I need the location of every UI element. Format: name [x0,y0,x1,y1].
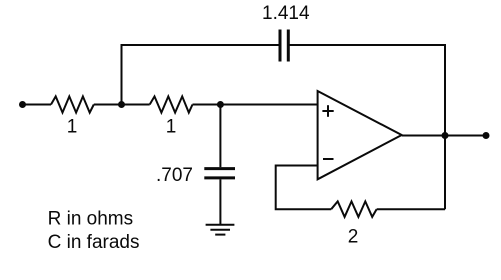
wire [122,45,281,105]
svg-text:2: 2 [348,227,359,248]
wire [94,104,150,106]
resistor R2 [150,96,193,112]
wire [288,45,445,209]
wire [402,135,486,137]
node output junction [442,132,449,139]
op-amp U1 minus input symbol [323,158,334,160]
svg-text:1: 1 [166,117,177,138]
op-amp U1 plus input symbol [322,105,333,117]
node A [118,101,125,108]
wire [276,166,332,210]
svg-text:1.414: 1.414 [262,3,310,24]
wire [23,104,52,106]
op-amp U1 [318,91,402,179]
wire [219,105,221,168]
resistor R3 [331,201,376,217]
capacitor C1 [204,169,235,178]
resistor R1 [51,96,94,112]
svg-text:R in ohms: R in ohms [48,209,134,230]
node B [217,101,224,108]
input terminal [19,101,26,108]
wire [219,179,221,224]
output terminal [483,132,490,139]
wire [377,208,445,210]
capacitor C2 [280,30,288,62]
ground [206,225,235,235]
svg-text:C in farads: C in farads [48,232,140,253]
wire [193,104,318,106]
svg-text:.707: .707 [156,165,193,186]
svg-text:1: 1 [67,117,78,138]
